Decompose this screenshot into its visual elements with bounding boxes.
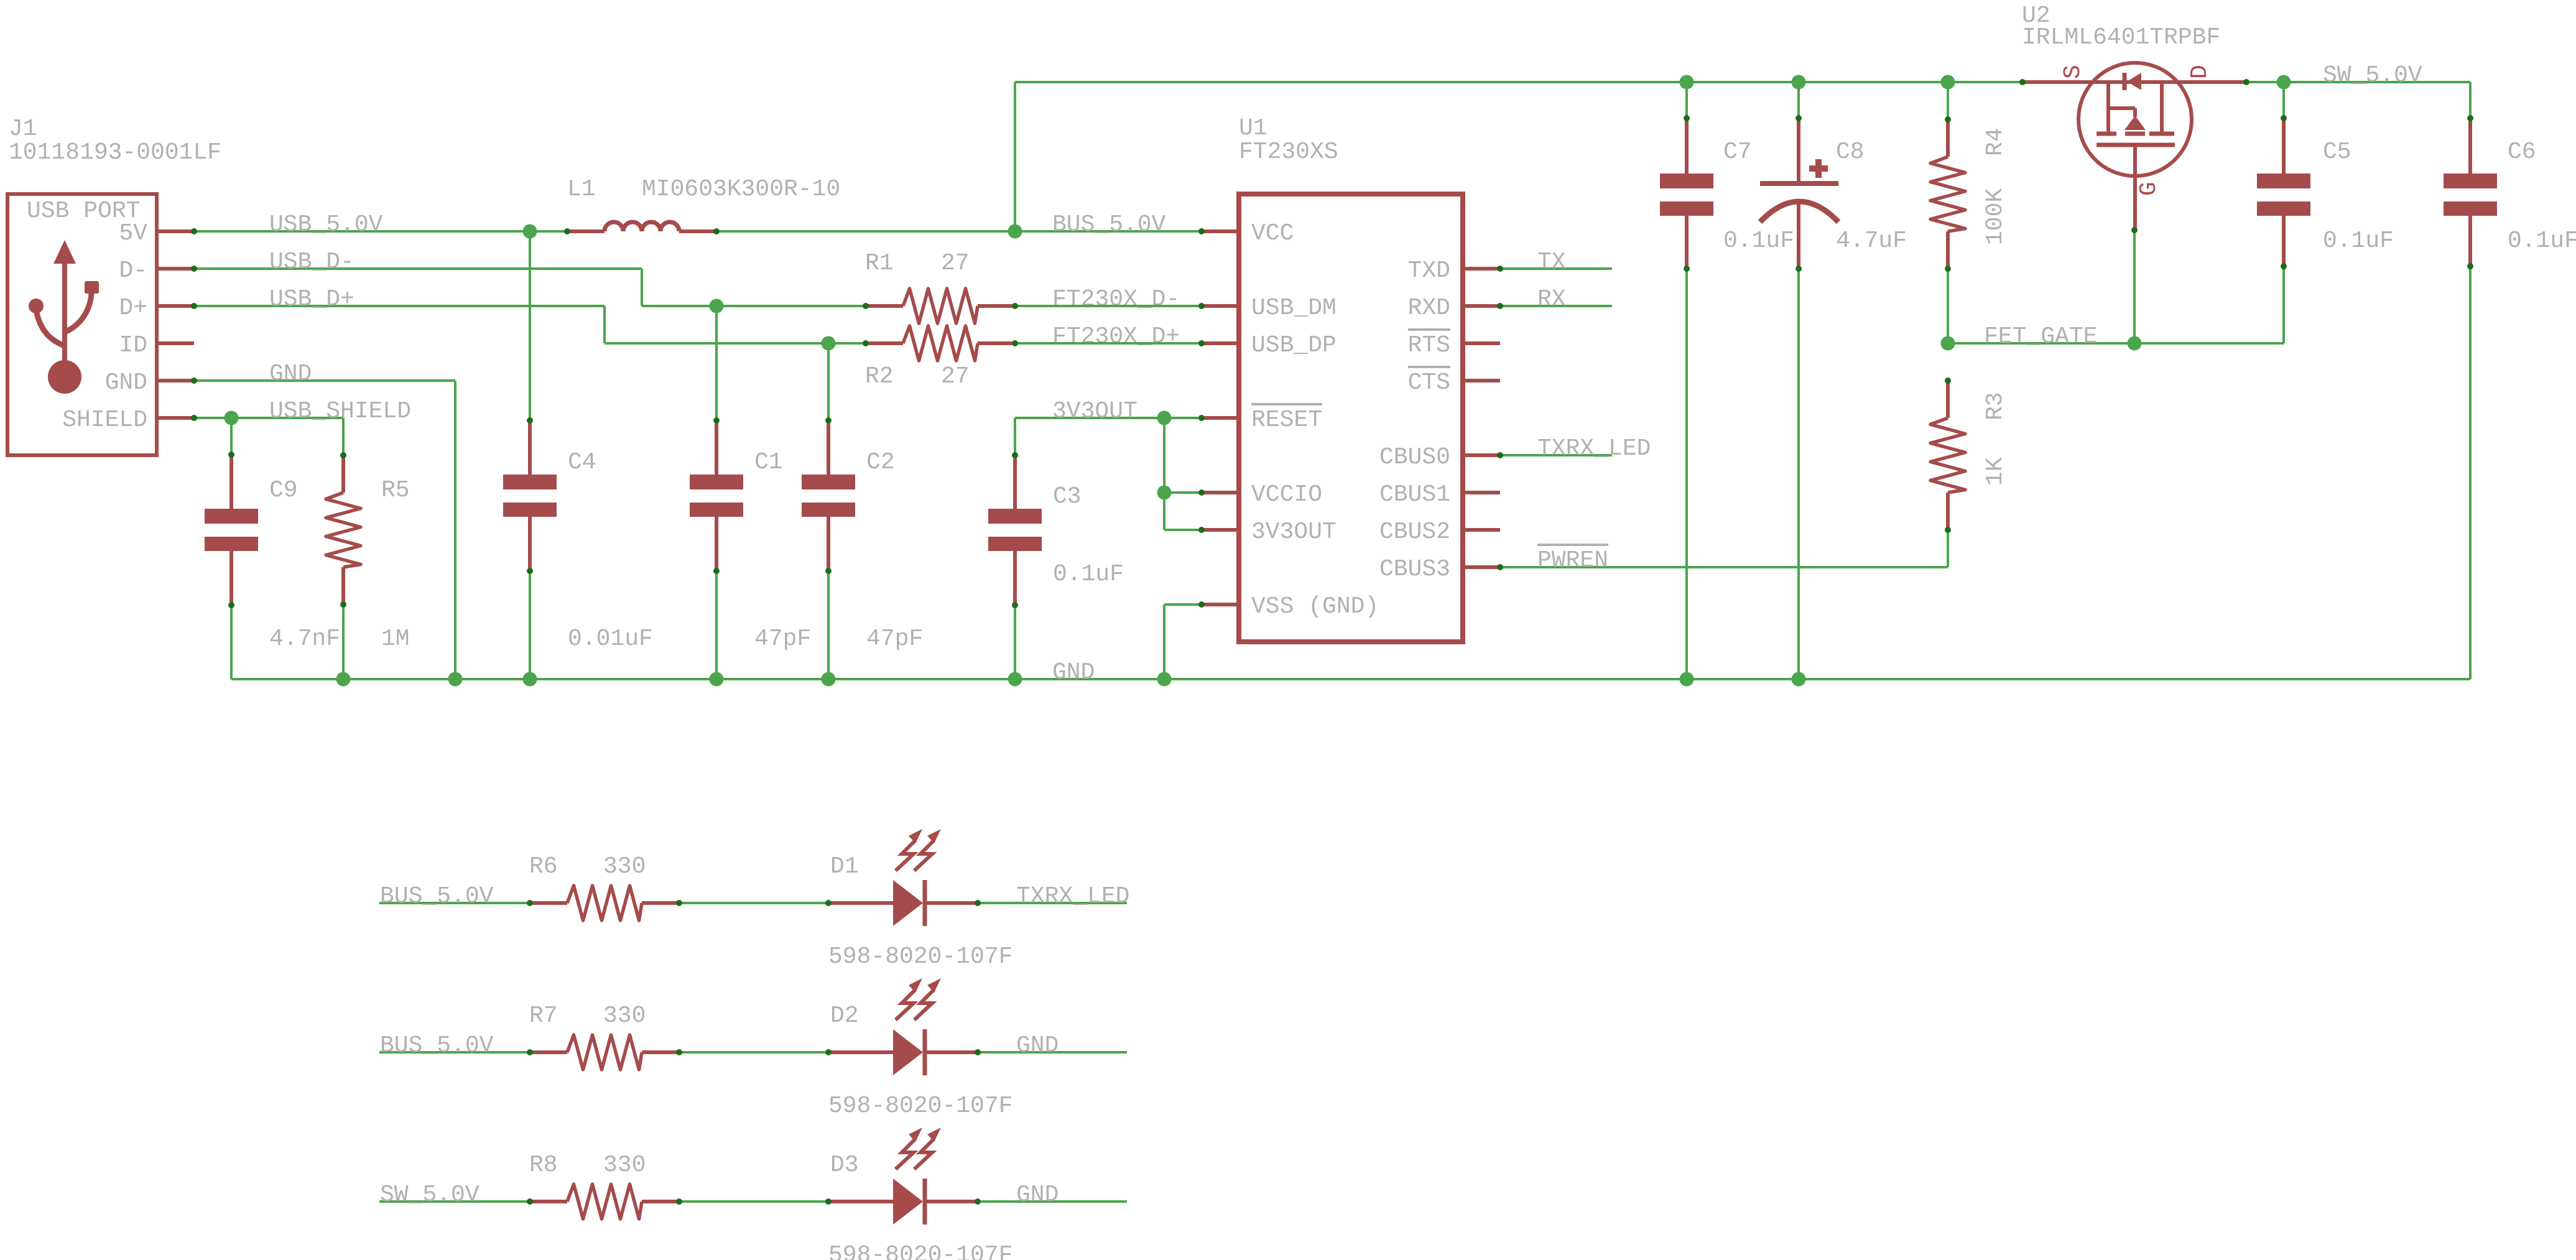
junction GND rail / C1 xyxy=(710,672,724,687)
junction USB_SHIELD / C9 xyxy=(225,411,239,425)
wire FT230X_D- xyxy=(642,305,866,307)
RESET overline xyxy=(1251,403,1322,405)
junction GND rail / C7 xyxy=(1680,672,1694,687)
svg-text:D: D xyxy=(2187,65,2213,79)
svg-text:0.1uF: 0.1uF xyxy=(1053,561,1124,588)
pin connection dot xyxy=(228,602,234,608)
pin connection dot xyxy=(2243,79,2249,85)
pin connection dot xyxy=(825,1198,832,1205)
wire riser to top rail xyxy=(1014,82,1016,231)
wire C4 top xyxy=(529,231,531,422)
wire FET_GATE xyxy=(1948,342,2284,345)
wire RX xyxy=(1500,305,1612,307)
junction GND rail / R5 xyxy=(336,672,351,687)
pin connection dot xyxy=(676,1198,682,1205)
resistor R6 xyxy=(567,886,642,920)
J1 pin 5V xyxy=(157,229,194,233)
svg-text:C2: C2 xyxy=(866,449,895,476)
wire C8 bottom to GND rail xyxy=(1797,269,1800,679)
svg-text:TX: TX xyxy=(1537,249,1566,276)
wire D1 to TXRX_LED xyxy=(978,902,1127,904)
wire C3 bottom xyxy=(1014,605,1016,679)
pin connection dot xyxy=(527,1198,533,1205)
svg-text:USB_DM: USB_DM xyxy=(1251,295,1337,322)
svg-text:USB_D+: USB_D+ xyxy=(269,286,354,313)
junction top rail / C5 / SW_5.0V xyxy=(2277,75,2291,90)
svg-text:TXRX_LED: TXRX_LED xyxy=(1537,435,1651,462)
svg-text:598-8020-107F: 598-8020-107F xyxy=(828,943,1012,970)
svg-text:BUS_5.0V: BUS_5.0V xyxy=(380,1032,494,1059)
pin connection dot xyxy=(191,303,197,309)
pin connection dot xyxy=(1198,527,1205,533)
LED D2 xyxy=(893,1029,923,1075)
resistor R8 xyxy=(567,1184,642,1219)
wire USB_D+ jog xyxy=(603,306,606,343)
wire C6 bottom to GND rail xyxy=(2469,269,2472,679)
junction top rail / R4 xyxy=(1941,75,1955,90)
capacitor C8 (polarized) xyxy=(1797,116,1800,182)
U1 pin CTS xyxy=(1463,379,1500,382)
wire TXRX_LED xyxy=(1500,454,1612,456)
svg-text:GND: GND xyxy=(105,369,147,396)
pin connection dot xyxy=(975,900,981,906)
pin connection dot xyxy=(713,228,720,234)
svg-text:4.7nF: 4.7nF xyxy=(269,626,340,652)
svg-text:4.7uF: 4.7uF xyxy=(1836,228,1907,254)
svg-text:FT230X_D-: FT230X_D- xyxy=(1052,286,1180,313)
junction GND rail / C2 xyxy=(822,672,836,687)
pin connection dot xyxy=(340,601,346,608)
pin connection dot xyxy=(676,1049,682,1055)
svg-text:L1: L1 xyxy=(567,176,596,203)
wire USB_D+ xyxy=(194,305,605,307)
wire C5 top xyxy=(2282,82,2285,118)
IC U1 FT230XS box xyxy=(1239,194,1463,642)
pin connection dot xyxy=(191,378,197,384)
junction GND rail / C8 xyxy=(1792,672,1806,687)
pin connection dot xyxy=(863,303,869,309)
junction VCCIO xyxy=(1157,486,1172,500)
svg-text:100K: 100K xyxy=(1982,188,2009,245)
svg-text:0.01uF: 0.01uF xyxy=(568,626,653,652)
pin connection dot xyxy=(191,415,197,421)
svg-text:FET_GATE: FET_GATE xyxy=(1984,323,2097,350)
wire 3V3OUT down to VCCIO/3V3OUT pins xyxy=(1163,418,1165,530)
junction FET_GATE / U2 gate xyxy=(2128,336,2142,351)
connector J1 box xyxy=(7,194,157,455)
U2 body diode xyxy=(2123,73,2127,90)
pin connection dot xyxy=(2019,79,2026,85)
wire BUS_5.0V row D1 xyxy=(379,902,530,904)
svg-text:CBUS0: CBUS0 xyxy=(1379,444,1450,471)
svg-text:D1: D1 xyxy=(830,853,859,880)
U1 pin VSS (GND) xyxy=(1202,603,1239,606)
wire D2 to GND xyxy=(978,1051,1127,1054)
wire to 3V3OUT pin xyxy=(1164,529,1202,531)
svg-text:C7: C7 xyxy=(1723,139,1752,165)
svg-text:C8: C8 xyxy=(1836,139,1865,165)
junction GND rail / J1 GND xyxy=(448,672,463,687)
wire C5 bottom to FET_GATE xyxy=(2282,269,2285,343)
svg-text:D2: D2 xyxy=(830,1003,859,1029)
svg-text:CBUS3: CBUS3 xyxy=(1379,556,1450,583)
junction top rail / C7 xyxy=(1680,75,1694,90)
svg-text:47pF: 47pF xyxy=(754,626,811,652)
J1 pin D+ xyxy=(157,304,194,308)
junction FET_GATE / R4 R3 xyxy=(1941,336,1955,351)
wire C8 top xyxy=(1797,82,1800,118)
pin connection dot xyxy=(825,417,832,424)
U1 pin CBUS3 xyxy=(1463,565,1500,569)
pin connection dot xyxy=(2281,263,2287,269)
wire C6 top xyxy=(2469,82,2472,118)
svg-text:C9: C9 xyxy=(269,477,298,504)
svg-text:27: 27 xyxy=(941,250,970,277)
svg-text:BUS_5.0V: BUS_5.0V xyxy=(1052,211,1166,238)
svg-text:FT230X_D+: FT230X_D+ xyxy=(1052,323,1180,350)
svg-text:D3: D3 xyxy=(830,1152,859,1179)
svg-text:0.1uF: 0.1uF xyxy=(2508,228,2576,254)
wire C4 bottom xyxy=(529,571,531,679)
svg-text:C5: C5 xyxy=(2323,139,2351,165)
svg-text:MI0603K300R-10: MI0603K300R-10 xyxy=(642,176,840,203)
wire SW_5.0V row D3 xyxy=(379,1200,530,1203)
svg-text:D-: D- xyxy=(119,257,147,284)
svg-text:10118193-0001LF: 10118193-0001LF xyxy=(9,139,221,166)
U1 pin VCCIO xyxy=(1202,491,1239,494)
U1 pin RESET xyxy=(1202,416,1239,420)
wire TX xyxy=(1500,267,1612,270)
wire C1 bottom xyxy=(715,571,718,679)
wire SW_5.0V xyxy=(2246,81,2470,83)
pin connection dot xyxy=(1795,266,1802,272)
svg-text:R5: R5 xyxy=(381,477,410,504)
capacitor C3 xyxy=(988,509,1042,524)
svg-text:C1: C1 xyxy=(754,449,783,476)
wire PWREN xyxy=(1500,566,1948,568)
capacitor C7 xyxy=(1660,174,1713,188)
pin connection dot xyxy=(825,568,832,574)
pin connection dot xyxy=(191,266,197,272)
L1 left lead xyxy=(567,229,605,233)
svg-text:D+: D+ xyxy=(119,295,147,322)
svg-text:RX: RX xyxy=(1537,286,1566,313)
svg-text:TXRX_LED: TXRX_LED xyxy=(1016,883,1129,910)
pin connection dot xyxy=(975,1198,981,1205)
junction USB_5.0V / C4 xyxy=(523,225,537,239)
capacitor C1 xyxy=(690,475,743,489)
svg-text:RESET: RESET xyxy=(1251,407,1322,433)
capacitor C6 xyxy=(2444,174,2497,188)
junction GND rail / C4 xyxy=(523,672,537,687)
svg-text:R7: R7 xyxy=(529,1003,558,1029)
svg-text:VSS (GND): VSS (GND) xyxy=(1251,593,1379,620)
wire top rail BUS_5.0V xyxy=(1015,81,2470,83)
wire U2 gate to FET_GATE xyxy=(2133,230,2136,343)
transistor U2 IRLML6401TRPBF xyxy=(2078,63,2192,176)
svg-text:CBUS2: CBUS2 xyxy=(1379,519,1450,545)
wire C9 top xyxy=(230,418,233,455)
svg-text:BUS_5.0V: BUS_5.0V xyxy=(380,883,494,910)
pin connection dot xyxy=(1497,452,1503,458)
wire USB_D- xyxy=(194,267,642,270)
svg-text:27: 27 xyxy=(941,363,970,390)
svg-text:R1: R1 xyxy=(865,250,894,277)
svg-text:SHIELD: SHIELD xyxy=(62,407,147,433)
svg-text:PWREN: PWREN xyxy=(1537,547,1608,574)
pin connection dot xyxy=(1945,378,1951,384)
capacitor C4 xyxy=(503,475,557,489)
svg-text:SW_5.0V: SW_5.0V xyxy=(380,1182,480,1208)
pin connection dot xyxy=(1497,303,1503,309)
wire USB_SHIELD xyxy=(194,417,343,419)
svg-text:C4: C4 xyxy=(568,449,596,476)
wire C1 top xyxy=(715,306,718,422)
CTS overline xyxy=(1408,366,1450,368)
L1 right lead xyxy=(679,229,716,233)
inductor L1 xyxy=(605,222,679,231)
svg-text:5V: 5V xyxy=(119,220,147,247)
svg-text:3V3OUT: 3V3OUT xyxy=(1052,398,1137,425)
svg-text:FT230XS: FT230XS xyxy=(1239,139,1338,165)
U2 gate stem xyxy=(2133,145,2137,230)
pin connection dot xyxy=(564,228,570,234)
svg-text:47pF: 47pF xyxy=(866,626,923,652)
wire VSS down to GND rail xyxy=(1163,605,1165,679)
U1 pin 3V3OUT xyxy=(1202,528,1239,532)
svg-text:R2: R2 xyxy=(865,363,894,390)
LED D3 xyxy=(893,1179,923,1225)
svg-text:0.1uF: 0.1uF xyxy=(2323,228,2394,254)
svg-text:TXD: TXD xyxy=(1408,257,1450,284)
wire C2 top xyxy=(827,343,830,422)
pin connection dot xyxy=(713,417,720,424)
wire R2 to USB_DP xyxy=(1015,342,1202,345)
pin connection dot xyxy=(1012,303,1018,309)
pin connection dot xyxy=(1012,340,1018,346)
pin connection dot xyxy=(1198,340,1205,346)
svg-text:USB_D-: USB_D- xyxy=(269,249,354,276)
pin connection dot xyxy=(1198,415,1205,421)
capacitor C5 xyxy=(2257,174,2310,188)
wire to VCCIO pin xyxy=(1164,491,1202,494)
resistor R4 xyxy=(1930,157,1965,231)
wire C7 top xyxy=(1685,82,1688,118)
pin connection dot xyxy=(975,1049,981,1055)
svg-text:330: 330 xyxy=(603,853,646,880)
U1 pin USB_DM xyxy=(1202,304,1239,308)
wire USB_D- jog xyxy=(641,269,643,306)
wire R1 to USB_DM xyxy=(1015,305,1202,307)
svg-text:USB_SHIELD: USB_SHIELD xyxy=(269,398,411,425)
svg-text:IRLML6401TRPBF: IRLML6401TRPBF xyxy=(2022,24,2220,51)
pin connection dot xyxy=(2467,263,2473,269)
svg-text:C6: C6 xyxy=(2508,139,2536,165)
svg-text:U1: U1 xyxy=(1239,115,1267,142)
pin connection dot xyxy=(527,900,533,906)
svg-text:CBUS1: CBUS1 xyxy=(1379,481,1450,508)
J1 pin SHIELD xyxy=(157,416,194,420)
svg-text:598-8020-107F: 598-8020-107F xyxy=(828,1242,1012,1260)
pin connection dot xyxy=(527,1049,533,1055)
RTS overline xyxy=(1408,328,1450,331)
wire R3 bottom to PWREN xyxy=(1947,530,1949,567)
wire C3 top xyxy=(1014,418,1016,455)
pin connection dot xyxy=(527,568,533,574)
U1 pin CBUS2 xyxy=(1463,528,1500,532)
wire R5 top xyxy=(342,418,345,455)
wire R8 to D3 xyxy=(679,1200,828,1203)
svg-text:USB_5.0V: USB_5.0V xyxy=(269,211,383,238)
pin connection dot xyxy=(1198,489,1205,496)
wire VSS to GND xyxy=(1164,603,1202,606)
U1 pin RTS xyxy=(1463,341,1500,345)
svg-text:RTS: RTS xyxy=(1408,332,1450,359)
svg-text:GND: GND xyxy=(1016,1032,1059,1059)
pin connection dot xyxy=(1795,115,1802,121)
pin connection dot xyxy=(1198,303,1205,309)
wire R4 top xyxy=(1947,82,1949,119)
junction GND rail / C3 xyxy=(1008,672,1022,687)
svg-text:VCCIO: VCCIO xyxy=(1251,481,1322,508)
pin connection dot xyxy=(1945,527,1951,533)
resistor R2 xyxy=(903,326,978,361)
wire 3V3OUT to RESET xyxy=(1015,417,1202,419)
pin connection dot xyxy=(825,1049,832,1055)
svg-text:GND: GND xyxy=(269,361,312,387)
svg-text:R4: R4 xyxy=(1982,127,2009,156)
U1 pin VCC xyxy=(1202,229,1239,233)
junction GND rail / VSS xyxy=(1157,672,1172,687)
wire R4 bottom to FET_GATE xyxy=(1947,269,1949,343)
pin connection dot xyxy=(713,568,720,574)
pin connection dot xyxy=(1945,116,1951,123)
J1 pin ID xyxy=(157,341,194,345)
U1 pin TXD xyxy=(1463,267,1500,271)
svg-text:1M: 1M xyxy=(381,626,410,652)
resistor R3 xyxy=(1930,418,1965,493)
svg-text:USB_DP: USB_DP xyxy=(1251,332,1337,359)
pin connection dot xyxy=(1684,266,1690,272)
pin connection dot xyxy=(1945,266,1951,272)
wire R5 bottom xyxy=(342,605,345,679)
capacitor C9 xyxy=(205,509,258,524)
USB icon xyxy=(29,240,99,394)
U1 pin USB_DP xyxy=(1202,341,1239,345)
svg-text:J1: J1 xyxy=(9,116,37,142)
junction FT230X_D- / C1 xyxy=(710,299,724,313)
pin connection dot xyxy=(1198,228,1205,234)
wire BUS_5.0V xyxy=(716,230,1202,233)
pin connection dot xyxy=(1198,601,1205,608)
svg-text:598-8020-107F: 598-8020-107F xyxy=(828,1093,1012,1119)
U1 pin RXD xyxy=(1463,304,1500,308)
U1 pin CBUS1 xyxy=(1463,491,1500,494)
wire R7 to D2 xyxy=(679,1051,828,1054)
pin connection dot xyxy=(228,452,234,458)
wire GND from J1 xyxy=(194,379,455,382)
capacitor C2 xyxy=(802,475,855,489)
resistor R1 xyxy=(903,289,978,323)
U1 pin CBUS0 xyxy=(1463,453,1500,457)
pin connection dot xyxy=(340,452,346,458)
pin connection dot xyxy=(825,900,832,906)
svg-text:CTS: CTS xyxy=(1408,369,1450,396)
resistor R5 xyxy=(326,493,361,567)
wire C2 bottom xyxy=(827,571,830,679)
svg-text:VCC: VCC xyxy=(1251,220,1294,247)
wire D3 to GND xyxy=(978,1200,1127,1203)
junction 3V3OUT / RESET xyxy=(1157,411,1172,425)
J1 pin GND xyxy=(157,379,194,382)
pin connection dot xyxy=(676,900,682,906)
wire FT230X_D+ xyxy=(605,342,866,345)
svg-text:SW_5.0V: SW_5.0V xyxy=(2323,62,2422,89)
svg-text:GND: GND xyxy=(1016,1182,1059,1208)
svg-text:1K: 1K xyxy=(1982,457,2009,486)
svg-text:3V3OUT: 3V3OUT xyxy=(1251,519,1337,545)
pin connection dot xyxy=(2467,115,2473,121)
svg-text:G: G xyxy=(2136,182,2162,196)
svg-text:S: S xyxy=(2060,65,2087,79)
wire GND rail xyxy=(231,678,2470,680)
wire GND down xyxy=(454,381,456,679)
wire C7 bottom to GND rail xyxy=(1685,269,1688,679)
wire USB_5.0V xyxy=(194,230,567,233)
pin connection dot xyxy=(1012,452,1018,458)
pin connection dot xyxy=(1497,564,1503,570)
pin connection dot xyxy=(191,228,197,234)
wire BUS_5.0V row D2 xyxy=(379,1051,530,1054)
wire R6 to D1 xyxy=(679,902,828,904)
junction BUS_5.0V / top rail riser xyxy=(1008,225,1022,239)
junction FT230X_D+ / C2 xyxy=(822,336,836,351)
J1 pin D- xyxy=(157,267,194,271)
svg-text:R6: R6 xyxy=(529,853,558,880)
pin connection dot xyxy=(2131,227,2138,233)
PWREN overline xyxy=(1537,544,1608,546)
pin connection dot xyxy=(527,417,533,424)
LED D1 xyxy=(893,880,923,926)
pin connection dot xyxy=(1012,602,1018,608)
svg-text:330: 330 xyxy=(603,1003,646,1029)
svg-text:GND: GND xyxy=(1052,659,1095,686)
pin connection dot xyxy=(1684,115,1690,121)
wire C9 bottom xyxy=(230,605,233,679)
junction top rail / C8 xyxy=(1792,75,1806,90)
svg-text:0.1uF: 0.1uF xyxy=(1723,228,1794,254)
pin connection dot xyxy=(1497,266,1503,272)
pin connection dot xyxy=(2281,115,2287,121)
svg-text:C3: C3 xyxy=(1053,483,1082,510)
svg-text:RXD: RXD xyxy=(1408,295,1450,322)
resistor R7 xyxy=(567,1035,642,1070)
svg-text:330: 330 xyxy=(603,1152,646,1179)
svg-text:ID: ID xyxy=(119,332,147,359)
svg-text:R3: R3 xyxy=(1982,392,2009,420)
svg-text:R8: R8 xyxy=(529,1152,558,1179)
pin connection dot xyxy=(863,340,869,346)
